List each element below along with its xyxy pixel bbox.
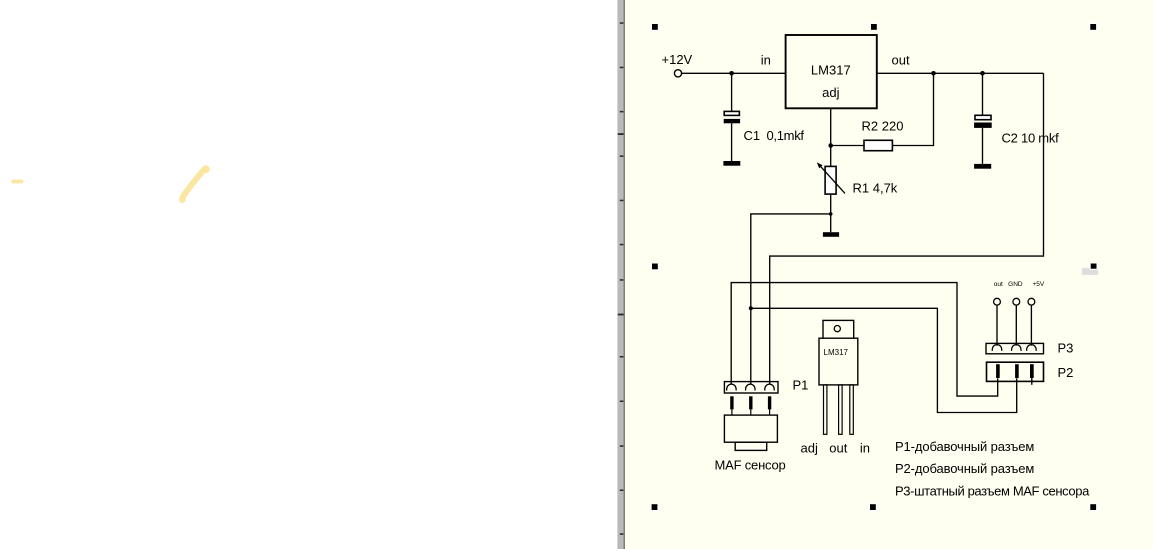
wire: P3 pin wires from circles — [996, 305, 998, 345]
svg-text:in: in — [860, 441, 870, 456]
connector P1 — [724, 377, 808, 393]
svg-text:R2 220: R2 220 — [862, 119, 904, 134]
node: junction below R1 — [829, 212, 833, 216]
wire: gnd branch to P2 pin2 — [751, 308, 1017, 412]
svg-text:out: out — [994, 281, 1003, 288]
svg-text:P2: P2 — [1058, 365, 1074, 380]
svg-text:P3: P3 — [1058, 340, 1074, 355]
svg-text:+12V: +12V — [662, 52, 693, 67]
node: junction at C1 tap — [729, 71, 734, 76]
svg-text:in: in — [761, 53, 771, 68]
gray chip behind right-middle handle — [1082, 268, 1098, 275]
wire: out rail drop right side down-left to P1 pin3 — [770, 73, 1044, 384]
labels adj out in under package — [801, 441, 871, 456]
svg-text:P2-добавочный разъем: P2-добавочный разъем — [895, 461, 1034, 476]
yellow highlighter dash (left white area) — [11, 180, 23, 184]
svg-text:adj: adj — [801, 441, 818, 456]
wire: adj junction to R2 — [831, 145, 864, 147]
capacitor C1 — [724, 111, 740, 123]
wire: R1 gnd junction left and down to P1 pin2 — [751, 214, 831, 385]
connector P3 (stock MAF connector) — [986, 281, 1073, 356]
wire: LM317 out rail — [877, 72, 1044, 74]
svg-text:LM317: LM317 — [824, 348, 849, 357]
svg-text:+5V: +5V — [1033, 281, 1045, 288]
svg-text:C1: C1 — [744, 128, 761, 143]
node: junction at C2 tap on out rail — [980, 71, 985, 76]
node: junction at R2 tap on out rail — [931, 71, 936, 76]
svg-text:LM317: LM317 — [811, 62, 851, 77]
wire: adj down from LM317 — [830, 108, 832, 145]
yellow highlighter stroke (left white area) — [182, 165, 210, 200]
ground below C1 — [723, 161, 740, 166]
P1 pins (male blades) — [730, 396, 771, 409]
MAF sensor body — [715, 415, 786, 472]
wire: R1 bottom to ground — [830, 194, 832, 232]
connector P2 (added connector) — [987, 362, 1074, 381]
ground below C2 — [974, 164, 991, 169]
transistor package LM317 (TO-220) — [819, 320, 858, 434]
svg-text:0,1mkf: 0,1mkf — [767, 128, 805, 143]
selection handles (black squares) — [650, 23, 1098, 511]
legend text lines — [895, 439, 1090, 498]
wire: P1 pin1 up-right-down to P2 pin1 — [731, 283, 998, 397]
pin circles — [994, 298, 1001, 305]
capacitor C2 — [974, 115, 992, 128]
wire: +12V to LM317 in — [682, 72, 786, 74]
IC U1: LM317 regulator block — [786, 35, 877, 108]
svg-text:P1-добавочный разъем: P1-добавочный разъем — [895, 439, 1034, 454]
svg-text:MAF сенсор: MAF сенсор — [715, 457, 786, 472]
svg-text:GND: GND — [1008, 281, 1023, 288]
svg-text:P3-штатный разъем MAF сенсора: P3-штатный разъем MAF сенсора — [895, 483, 1090, 498]
wire: P2 pin3 stub — [1031, 378, 1033, 385]
svg-text:R1 4,7k: R1 4,7k — [853, 180, 898, 195]
pin name labels — [994, 281, 1045, 288]
vertical ruler bar — [617, 0, 624, 549]
svg-text:out: out — [892, 53, 910, 68]
wire: R2 right up to out rail — [892, 73, 933, 145]
node: junction gnd branch — [749, 306, 753, 310]
resistor R2 — [862, 119, 904, 151]
wire: C1 branch down — [731, 73, 733, 111]
svg-text:C2 10 mkf: C2 10 mkf — [1002, 130, 1060, 145]
node: +12V input terminal — [674, 70, 681, 77]
svg-text:P1: P1 — [793, 377, 809, 392]
ground below R1 — [823, 232, 839, 237]
schematic canvas panel (ivory) — [625, 0, 1153, 549]
wire: adj junction to R1 top — [830, 146, 832, 167]
svg-text:out: out — [829, 441, 847, 456]
node: junction at adj / R2 / R1 — [828, 143, 833, 148]
svg-text:adj: adj — [822, 85, 839, 100]
resistor R1 (variable, 4.7k) — [817, 162, 898, 195]
wire: C2 branch down — [982, 73, 984, 115]
